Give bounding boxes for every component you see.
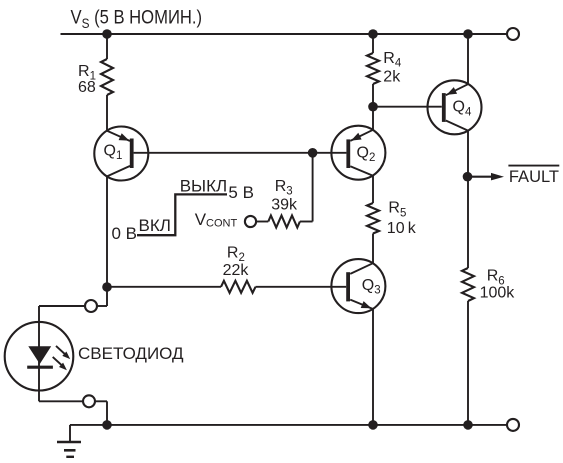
wire: R2 to Q3 base xyxy=(256,286,347,288)
svg-text:2k: 2k xyxy=(383,69,401,86)
value 2k xyxy=(383,69,401,86)
wire: junction down to LED anode terminal xyxy=(97,287,107,306)
wire: VS to R1 xyxy=(106,34,108,59)
terminal: top-right open circle xyxy=(507,28,519,40)
transistor Q1 xyxy=(94,127,148,181)
resistor R6 xyxy=(462,268,474,301)
wire: Q4 collector down xyxy=(467,131,469,268)
terminal: bottom-right open circle xyxy=(507,419,519,431)
transistor Q3 xyxy=(331,259,385,313)
transistor Q2 xyxy=(331,126,385,180)
wire: VCONT to R3 xyxy=(256,221,268,223)
LED D1 (photodiode symbol) xyxy=(5,322,74,391)
svg-text:5 В: 5 В xyxy=(228,183,254,202)
wire: R6 to ground rail xyxy=(467,301,469,425)
label Q4 xyxy=(453,99,472,119)
label VKL (on) xyxy=(139,216,171,235)
node: top rail junction at R4 xyxy=(368,29,378,39)
wire: R1 to Q1 emitter xyxy=(106,95,108,131)
value 10k xyxy=(387,220,417,237)
svg-text:Q3: Q3 xyxy=(362,277,381,297)
value 100k xyxy=(480,285,516,302)
terminal: VCONT open circle xyxy=(245,216,256,227)
wire: anode terminal to LED xyxy=(39,306,85,322)
svg-text:100k: 100k xyxy=(480,285,516,302)
label SVETODIOD (LED) xyxy=(78,344,184,363)
label R5 xyxy=(388,200,406,220)
wire: R3 riser up to base line xyxy=(312,153,314,222)
terminal: LED cathode open circle xyxy=(83,395,95,407)
value 22k xyxy=(223,262,250,279)
resistor R5 xyxy=(367,203,379,234)
svg-text:R4: R4 xyxy=(383,50,402,70)
svg-text:R5: R5 xyxy=(388,200,406,220)
svg-text:R3: R3 xyxy=(275,178,293,198)
label R2 xyxy=(227,244,245,264)
wire: top rail to Q4 emitter xyxy=(467,34,469,84)
label R4 xyxy=(383,50,402,70)
node: ground rail junction LED branch xyxy=(102,420,112,430)
wire: R5 to Q3 collector xyxy=(372,234,374,264)
wire: R4 to Q2 emitter node xyxy=(372,84,374,130)
node: top rail junction at Q4 emitter xyxy=(463,29,473,39)
label R6 xyxy=(487,268,505,288)
wire: Q2 collector to R5 xyxy=(372,176,374,203)
wire: R3 to riser xyxy=(300,221,313,223)
value 39k xyxy=(271,196,298,213)
svg-text:Q1: Q1 xyxy=(104,143,123,163)
resistor R2 xyxy=(221,281,256,293)
node: ground rail junction Q3 emitter xyxy=(368,420,378,430)
node: ground rail junction R6 xyxy=(463,420,473,430)
svg-text:68: 68 xyxy=(78,79,96,96)
wire: junction to R2 xyxy=(107,286,221,288)
wire: cathode terminal to ground rail xyxy=(95,401,107,425)
label VCONT xyxy=(195,210,238,230)
value 68 xyxy=(78,79,96,96)
node: Q1 collector / R2 junction xyxy=(102,282,112,292)
svg-text:Q2: Q2 xyxy=(357,145,376,165)
resistor R1 xyxy=(101,59,113,95)
label Q1 xyxy=(104,143,123,163)
terminal: LED anode open circle xyxy=(85,300,97,312)
label 0 V xyxy=(112,224,138,243)
svg-text:Q4: Q4 xyxy=(453,99,472,119)
label Q3 xyxy=(362,277,381,297)
svg-text:VS (5 В НОМИН.): VS (5 В НОМИН.) xyxy=(71,6,203,31)
svg-text:ВКЛ: ВКЛ xyxy=(139,216,171,235)
resistor R4 xyxy=(367,53,379,84)
wire: Q3 emitter down to ground rail xyxy=(372,309,374,425)
waveform: VCONT step xyxy=(137,194,227,235)
net label VS (5 V nominal) xyxy=(71,6,203,31)
label Q2 xyxy=(357,145,376,165)
svg-text:FAULT: FAULT xyxy=(509,168,559,186)
wire: LED cathode to terminal xyxy=(39,391,83,402)
wire: top supply rail xyxy=(61,33,507,35)
label R3 xyxy=(275,178,293,198)
wire: junction to Q4 base xyxy=(373,106,442,108)
svg-text:СВЕТОДИОД: СВЕТОДИОД xyxy=(78,344,184,363)
node: FAULT junction xyxy=(463,172,473,182)
node: VS junction at R1 top xyxy=(102,29,112,39)
svg-text:R2: R2 xyxy=(227,244,245,264)
svg-text:39k: 39k xyxy=(271,196,298,213)
resistor R3 xyxy=(268,216,300,228)
wire: bottom ground rail xyxy=(70,424,507,426)
label 5 V xyxy=(228,183,254,202)
wire: Q1 base to Q2 base xyxy=(134,152,347,154)
svg-text:VCONT: VCONT xyxy=(195,210,238,230)
node: R4 bottom / Q4 base junction xyxy=(368,102,378,112)
FAULT arrow xyxy=(468,173,504,181)
label R1 xyxy=(78,63,96,83)
svg-text:0 В: 0 В xyxy=(112,224,138,243)
svg-text:10 k: 10 k xyxy=(387,220,417,237)
transistor Q4 xyxy=(428,80,482,134)
svg-text:ВЫКЛ: ВЫКЛ xyxy=(180,177,227,196)
label FAULT (with overbar) xyxy=(508,166,559,186)
node: base line junction with R3 riser xyxy=(308,148,318,158)
svg-text:22k: 22k xyxy=(223,262,250,279)
ground symbol xyxy=(57,425,81,457)
wire: Q1 collector down xyxy=(106,176,108,287)
label VYKL (off) xyxy=(180,177,227,196)
wire: top rail to R4 xyxy=(372,34,374,53)
